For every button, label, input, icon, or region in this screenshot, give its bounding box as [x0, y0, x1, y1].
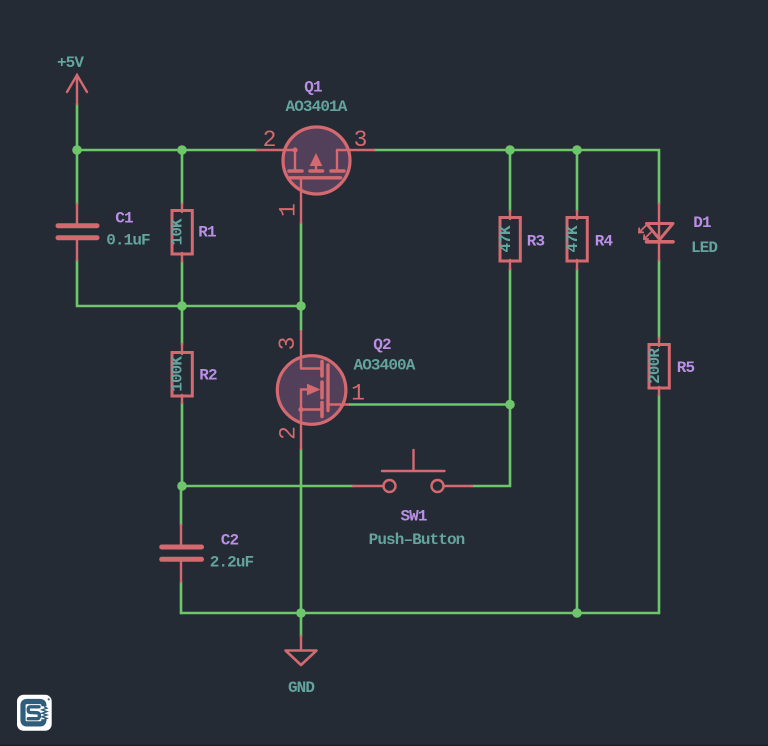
- svg-text:R1: R1: [198, 224, 216, 242]
- svg-text:10K: 10K: [169, 218, 187, 245]
- svg-text:+5V: +5V: [57, 54, 84, 72]
- svg-text:R4: R4: [595, 233, 614, 251]
- svg-text:D1: D1: [693, 214, 711, 232]
- svg-text:3: 3: [354, 127, 368, 153]
- svg-text:GND: GND: [288, 679, 314, 697]
- svg-text:2.2uF: 2.2uF: [210, 554, 254, 572]
- svg-text:AO3401A: AO3401A: [286, 98, 348, 116]
- svg-text:2: 2: [263, 127, 277, 153]
- svg-text:0.1uF: 0.1uF: [106, 232, 150, 250]
- svg-text:47K: 47K: [564, 225, 582, 252]
- svg-text:3: 3: [275, 337, 301, 351]
- svg-text:1: 1: [276, 203, 302, 217]
- svg-text:R5: R5: [677, 359, 695, 377]
- svg-text:C2: C2: [221, 532, 239, 550]
- svg-text:100K: 100K: [169, 356, 187, 392]
- svg-text:1: 1: [351, 381, 365, 407]
- svg-text:R2: R2: [199, 367, 217, 385]
- svg-text:LED: LED: [691, 239, 717, 257]
- svg-text:SW1: SW1: [400, 508, 426, 526]
- svg-text:47K: 47K: [497, 225, 515, 252]
- svg-text:200R: 200R: [646, 348, 664, 384]
- svg-text:C1: C1: [115, 210, 133, 228]
- svg-text:R3: R3: [527, 233, 545, 251]
- svg-text:2: 2: [276, 426, 302, 440]
- svg-text:Q1: Q1: [304, 79, 322, 97]
- svg-text:AO3400A: AO3400A: [354, 357, 416, 375]
- svg-text:Q2: Q2: [373, 336, 391, 354]
- svg-text:Push–Button: Push–Button: [369, 531, 465, 549]
